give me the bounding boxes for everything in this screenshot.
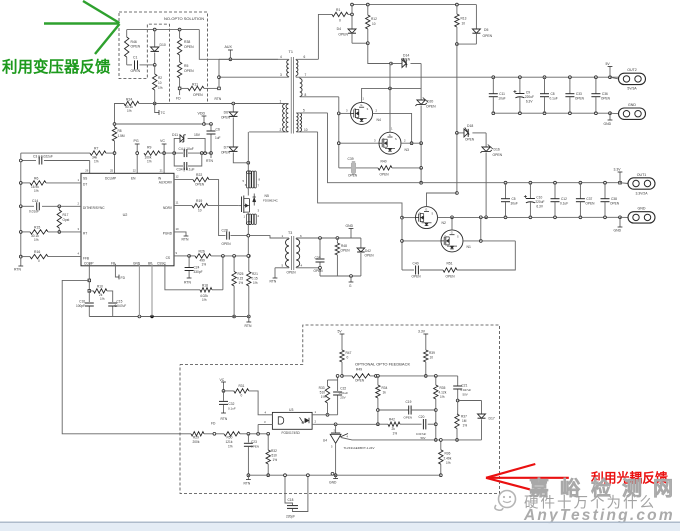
svg-text:OPEN: OPEN xyxy=(412,275,422,279)
svg-text:OPEN: OPEN xyxy=(601,97,611,101)
svg-text:R33: R33 xyxy=(319,386,325,390)
svg-text:C37: C37 xyxy=(586,197,592,201)
svg-text:0.01uF: 0.01uF xyxy=(339,391,349,395)
svg-text:AUX: AUX xyxy=(225,45,233,49)
svg-text:GND: GND xyxy=(628,103,636,107)
svg-text:R36: R36 xyxy=(445,452,451,456)
svg-text:OPEN: OPEN xyxy=(222,242,232,246)
svg-text:OPEN: OPEN xyxy=(585,202,595,206)
svg-text:C32: C32 xyxy=(229,402,235,406)
svg-text:OPEN: OPEN xyxy=(404,416,413,420)
svg-text:R32: R32 xyxy=(271,449,277,453)
svg-text:2.49k: 2.49k xyxy=(444,456,452,460)
svg-text:D18: D18 xyxy=(467,124,473,128)
svg-text:C22: C22 xyxy=(340,387,346,391)
svg-text:RTN: RTN xyxy=(221,417,228,421)
svg-text:3.3V: 3.3V xyxy=(614,168,622,172)
svg-text:5V/3A: 5V/3A xyxy=(627,87,637,91)
svg-text:D6: D6 xyxy=(224,111,228,115)
svg-text:U4: U4 xyxy=(323,439,327,443)
svg-text:10: 10 xyxy=(158,81,162,85)
svg-text:GND: GND xyxy=(638,207,646,211)
svg-text:D: D xyxy=(354,108,356,111)
svg-text:10: 10 xyxy=(198,209,202,213)
svg-text:50V: 50V xyxy=(463,393,468,397)
svg-text:C11: C11 xyxy=(499,92,505,96)
svg-text:0.15: 0.15 xyxy=(252,277,258,281)
svg-text:0.047uF: 0.047uF xyxy=(115,304,127,308)
svg-text:PG: PG xyxy=(134,139,139,143)
svg-text:5V: 5V xyxy=(606,62,611,66)
svg-text:25V: 25V xyxy=(340,396,345,400)
svg-text:1%: 1% xyxy=(463,424,468,428)
svg-text:C34 || 0.1uF: C34 || 0.1uF xyxy=(177,168,195,172)
svg-text:R19: R19 xyxy=(196,199,202,203)
svg-text:OPEN: OPEN xyxy=(287,271,297,275)
svg-text:R11: R11 xyxy=(192,83,198,87)
svg-text:OPEN: OPEN xyxy=(221,116,231,120)
svg-text:R15: R15 xyxy=(34,226,40,230)
svg-text:DCLMP: DCLMP xyxy=(105,177,116,181)
svg-text:DT: DT xyxy=(83,183,87,187)
svg-text:1%: 1% xyxy=(253,281,258,285)
svg-text:OPEN: OPEN xyxy=(348,174,358,178)
svg-text:21: 21 xyxy=(160,169,164,173)
svg-text:R22: R22 xyxy=(196,173,202,177)
svg-text:AUXDRV: AUXDRV xyxy=(159,181,173,185)
svg-text:D5: D5 xyxy=(484,28,488,32)
svg-text:GND: GND xyxy=(614,229,622,233)
svg-text:C33: C33 xyxy=(576,92,582,96)
svg-text:0.047uF: 0.047uF xyxy=(461,388,472,392)
svg-text:OPEN: OPEN xyxy=(341,249,351,253)
svg-text:R13: R13 xyxy=(461,17,467,21)
svg-text:C15: C15 xyxy=(117,300,123,304)
svg-text:R42: R42 xyxy=(389,418,395,422)
svg-text:C24: C24 xyxy=(194,266,200,270)
svg-text:SS: SS xyxy=(83,177,87,181)
svg-text:PGND: PGND xyxy=(163,232,173,236)
svg-text:OPEN: OPEN xyxy=(401,58,411,62)
svg-text:10uF: 10uF xyxy=(498,97,505,101)
svg-text:OPEN: OPEN xyxy=(193,93,203,97)
svg-text:1%: 1% xyxy=(440,395,445,399)
svg-text:C12: C12 xyxy=(561,197,567,201)
svg-text:0: 0 xyxy=(241,394,243,398)
svg-text:1%: 1% xyxy=(34,238,39,242)
svg-text:5V: 5V xyxy=(338,330,343,334)
svg-text:D11: D11 xyxy=(172,133,178,137)
svg-text:OPEN: OPEN xyxy=(131,45,141,49)
svg-text:VDD: VDD xyxy=(198,112,206,116)
svg-text:D16: D16 xyxy=(494,148,500,152)
svg-text:T1: T1 xyxy=(289,50,293,54)
svg-text:OPEN: OPEN xyxy=(338,33,348,37)
svg-text:OPEN: OPEN xyxy=(426,105,436,109)
svg-text:11: 11 xyxy=(176,201,179,205)
svg-text:C1: C1 xyxy=(133,56,137,60)
svg-text:OPEN: OPEN xyxy=(251,445,260,449)
svg-text:1%: 1% xyxy=(100,297,105,301)
svg-text:NDRV: NDRV xyxy=(163,206,173,210)
svg-text:330pF: 330pF xyxy=(194,270,203,274)
svg-text:2: 2 xyxy=(280,128,282,132)
svg-text:10: 10 xyxy=(372,22,376,26)
svg-text:R34: R34 xyxy=(382,386,388,390)
svg-text:VC: VC xyxy=(220,378,225,382)
svg-text:FFB: FFB xyxy=(83,257,89,261)
svg-text:OPEN: OPEN xyxy=(446,275,456,279)
svg-text:6.3V: 6.3V xyxy=(536,205,543,209)
svg-text:R12: R12 xyxy=(371,17,377,21)
svg-text:D20: D20 xyxy=(427,100,433,104)
svg-text:R5: R5 xyxy=(184,64,188,68)
svg-text:C9: C9 xyxy=(526,91,530,95)
svg-text:0.1uF: 0.1uF xyxy=(550,97,558,101)
svg-text:220uF: 220uF xyxy=(525,95,534,99)
svg-text:3.3V/2A: 3.3V/2A xyxy=(635,191,648,195)
svg-text:25: 25 xyxy=(110,169,114,173)
svg-text:1M: 1M xyxy=(462,419,467,423)
svg-text:R35: R35 xyxy=(440,386,446,390)
svg-text:G: G xyxy=(425,207,427,211)
svg-text:GND: GND xyxy=(346,224,354,228)
svg-text:EN: EN xyxy=(131,177,136,181)
svg-text:C6: C6 xyxy=(216,128,220,132)
svg-text:C19: C19 xyxy=(406,400,412,404)
svg-text:R2: R2 xyxy=(158,76,162,80)
svg-text:OPEN: OPEN xyxy=(184,69,194,73)
svg-text:0: 0 xyxy=(347,356,349,360)
svg-text:7: 7 xyxy=(305,73,307,77)
svg-text:50V: 50V xyxy=(421,436,426,440)
svg-text:1%: 1% xyxy=(34,189,39,193)
svg-text:1: 1 xyxy=(280,100,282,104)
svg-text:N3: N3 xyxy=(405,148,409,152)
svg-text:GND: GND xyxy=(604,122,612,126)
svg-text:1.5M: 1.5M xyxy=(118,134,125,138)
svg-text:30uF: 30uF xyxy=(511,202,518,206)
svg-text:OPEN: OPEN xyxy=(314,269,324,273)
svg-text:10: 10 xyxy=(430,356,434,360)
svg-text:GND: GND xyxy=(329,481,337,485)
svg-text:D17: D17 xyxy=(489,417,495,421)
svg-text:R51: R51 xyxy=(447,262,453,266)
svg-text:R25: R25 xyxy=(238,272,244,276)
svg-text:1k: 1k xyxy=(383,391,387,395)
svg-text:R9: R9 xyxy=(147,146,151,150)
svg-text:C16: C16 xyxy=(79,300,85,304)
svg-text:DITHER/SYNC: DITHER/SYNC xyxy=(83,206,105,210)
svg-text:OPEN: OPEN xyxy=(195,183,205,187)
svg-text:OPTIONAL OPTO FEEDBACK: OPTIONAL OPTO FEEDBACK xyxy=(355,362,410,367)
svg-text:VC: VC xyxy=(160,139,165,143)
svg-text:NO-OPTO SOLUTION: NO-OPTO SOLUTION xyxy=(164,16,204,21)
svg-text:RTN: RTN xyxy=(244,482,251,486)
svg-text:R10: R10 xyxy=(97,285,103,289)
svg-text:1%: 1% xyxy=(228,445,233,449)
svg-text:220pF: 220pF xyxy=(286,515,295,519)
svg-text:RTN: RTN xyxy=(184,281,191,285)
svg-text:C20: C20 xyxy=(419,415,425,419)
svg-text:OPEN: OPEN xyxy=(131,69,141,73)
svg-text:10: 10 xyxy=(176,227,180,231)
svg-text:1%: 1% xyxy=(127,109,132,113)
svg-text:1%: 1% xyxy=(273,458,278,462)
svg-text:R1: R1 xyxy=(336,8,340,12)
svg-text:2k: 2k xyxy=(392,427,396,431)
svg-text:RTN: RTN xyxy=(215,97,222,101)
svg-text:R18: R18 xyxy=(202,284,208,288)
svg-text:D4: D4 xyxy=(337,27,341,31)
svg-text:C29: C29 xyxy=(315,256,321,260)
svg-text:510: 510 xyxy=(320,391,326,395)
svg-text:0.01uF: 0.01uF xyxy=(29,210,39,214)
svg-text:OPEN: OPEN xyxy=(493,153,503,157)
svg-text:G: G xyxy=(389,133,391,137)
svg-text:0.1uF: 0.1uF xyxy=(560,202,568,206)
svg-text:1%: 1% xyxy=(239,281,244,285)
svg-text:200k: 200k xyxy=(193,440,200,444)
svg-text:FOD0174SD: FOD0174SD xyxy=(282,431,301,435)
svg-text:N5: N5 xyxy=(265,194,269,198)
svg-text:R47: R47 xyxy=(346,351,352,355)
svg-text:12: 12 xyxy=(176,175,180,179)
svg-text:0: 0 xyxy=(339,19,341,23)
svg-text:OPEN: OPEN xyxy=(184,45,194,49)
svg-text:C18: C18 xyxy=(288,498,294,502)
svg-text:1%: 1% xyxy=(94,160,99,164)
svg-text:RT: RT xyxy=(83,232,87,236)
svg-text:利用变压器反馈: 利用变压器反馈 xyxy=(2,57,111,76)
svg-text:RTN: RTN xyxy=(206,159,213,163)
svg-text:OPEN: OPEN xyxy=(221,151,231,155)
svg-text:CS: CS xyxy=(166,256,170,260)
svg-text:C23: C23 xyxy=(251,440,257,444)
svg-text:10: 10 xyxy=(304,128,308,132)
svg-text:N2: N2 xyxy=(442,221,446,225)
svg-text:OPEN: OPEN xyxy=(465,138,475,142)
svg-text:OPEN: OPEN xyxy=(575,97,585,101)
svg-text:1%: 1% xyxy=(393,432,398,436)
svg-text:OUT1: OUT1 xyxy=(637,173,647,177)
svg-text:22: 22 xyxy=(133,169,137,173)
svg-text:26: 26 xyxy=(85,169,89,173)
svg-text:C21: C21 xyxy=(462,384,468,388)
svg-text:AnyTesting.com: AnyTesting.com xyxy=(523,507,675,524)
svg-text:R24: R24 xyxy=(126,98,132,102)
svg-text:R21: R21 xyxy=(252,272,258,276)
svg-text:D: D xyxy=(383,138,385,141)
svg-text:3: 3 xyxy=(280,73,282,77)
svg-text:6: 6 xyxy=(304,55,306,59)
svg-text:R37: R37 xyxy=(461,415,467,419)
svg-text:G: G xyxy=(360,103,362,107)
svg-text:0.15: 0.15 xyxy=(237,277,243,281)
svg-text:OPEN: OPEN xyxy=(380,173,390,177)
svg-text:R26: R26 xyxy=(199,250,205,254)
svg-text:R29: R29 xyxy=(193,436,199,440)
svg-text:C5: C5 xyxy=(512,197,516,201)
svg-text:Opst: Opst xyxy=(63,218,70,222)
svg-text:4: 4 xyxy=(280,55,282,59)
svg-text:100pF: 100pF xyxy=(76,304,85,308)
svg-text:U3: U3 xyxy=(289,408,293,412)
svg-text:G: G xyxy=(451,231,453,235)
svg-text:R39: R39 xyxy=(429,351,435,355)
svg-text:C14: C14 xyxy=(32,199,38,203)
svg-text:0.1uF: 0.1uF xyxy=(228,407,236,411)
svg-text:1%: 1% xyxy=(202,298,207,302)
svg-text:R49: R49 xyxy=(356,368,362,372)
svg-text:R8: R8 xyxy=(118,129,122,133)
svg-text:D10: D10 xyxy=(160,43,166,47)
svg-text:220uF: 220uF xyxy=(535,200,544,204)
svg-text:8: 8 xyxy=(305,93,307,97)
svg-text:U2: U2 xyxy=(123,213,128,217)
svg-text:D: D xyxy=(445,236,447,239)
svg-text:R31: R31 xyxy=(239,384,245,388)
svg-text:TC: TC xyxy=(161,111,166,115)
svg-text:TLV431AEDBVT-1.24V: TLV431AEDBVT-1.24V xyxy=(344,446,375,450)
svg-text:R38: R38 xyxy=(184,40,190,44)
svg-text:FD: FD xyxy=(211,422,216,426)
svg-text:1%: 1% xyxy=(202,263,207,267)
svg-text:R40: R40 xyxy=(381,160,387,164)
svg-text:0: 0 xyxy=(38,259,40,263)
svg-text:FB: FB xyxy=(111,262,115,266)
svg-text:OPEN: OPEN xyxy=(610,202,620,206)
svg-text:FDS8624C: FDS8624C xyxy=(263,199,279,203)
svg-text:D42: D42 xyxy=(365,249,371,253)
svg-text:C28: C28 xyxy=(222,229,228,233)
svg-text:R46: R46 xyxy=(131,40,137,44)
svg-text:R50: R50 xyxy=(227,436,233,440)
svg-text:FD: FD xyxy=(176,97,181,101)
svg-text:1%: 1% xyxy=(446,461,451,465)
svg-text:N4: N4 xyxy=(377,118,381,122)
svg-text:D: D xyxy=(419,212,421,215)
svg-text:C3 || 0.022uF: C3 || 0.022uF xyxy=(33,155,53,159)
svg-text:OPEN: OPEN xyxy=(365,254,375,258)
svg-text:1uF: 1uF xyxy=(215,136,221,140)
svg-text:R6: R6 xyxy=(34,177,38,181)
svg-text:RTN: RTN xyxy=(245,324,252,328)
svg-text:510: 510 xyxy=(272,454,278,458)
svg-text:COMP: COMP xyxy=(84,262,94,266)
svg-text:1%: 1% xyxy=(321,395,326,399)
svg-text:RTN: RTN xyxy=(14,268,21,272)
svg-text:RTN: RTN xyxy=(182,238,189,242)
svg-text:10: 10 xyxy=(462,22,466,26)
svg-text:N1: N1 xyxy=(467,245,471,249)
svg-text:T3: T3 xyxy=(288,231,292,235)
svg-text:D7: D7 xyxy=(224,146,228,150)
svg-text:R17: R17 xyxy=(63,213,69,217)
svg-text:OUT2: OUT2 xyxy=(627,68,637,72)
svg-text:R7: R7 xyxy=(94,147,98,151)
svg-text:15V: 15V xyxy=(194,133,201,137)
svg-text:OPEN: OPEN xyxy=(483,34,493,38)
svg-text:R48: R48 xyxy=(341,244,347,248)
svg-text:C38: C38 xyxy=(611,197,617,201)
svg-text:C40: C40 xyxy=(413,262,419,266)
svg-text:FD: FD xyxy=(121,276,126,280)
svg-text:C39: C39 xyxy=(348,157,354,161)
svg-text:C10: C10 xyxy=(536,196,542,200)
svg-text:5: 5 xyxy=(303,109,305,113)
svg-text:OPEN: OPEN xyxy=(355,379,365,383)
svg-text:1%: 1% xyxy=(147,160,152,164)
svg-text:C36: C36 xyxy=(602,92,608,96)
svg-text:C8: C8 xyxy=(551,92,555,96)
svg-text:6.3V: 6.3V xyxy=(526,100,533,104)
svg-text:121k: 121k xyxy=(226,440,233,444)
svg-text:C4 || 10uF: C4 || 10uF xyxy=(179,147,194,151)
svg-text:R16: R16 xyxy=(34,250,40,254)
svg-text:3.3V: 3.3V xyxy=(418,330,426,334)
svg-text:4.12k: 4.12k xyxy=(439,391,447,395)
svg-text:RTN: RTN xyxy=(270,280,277,284)
svg-text:1%: 1% xyxy=(158,86,163,90)
